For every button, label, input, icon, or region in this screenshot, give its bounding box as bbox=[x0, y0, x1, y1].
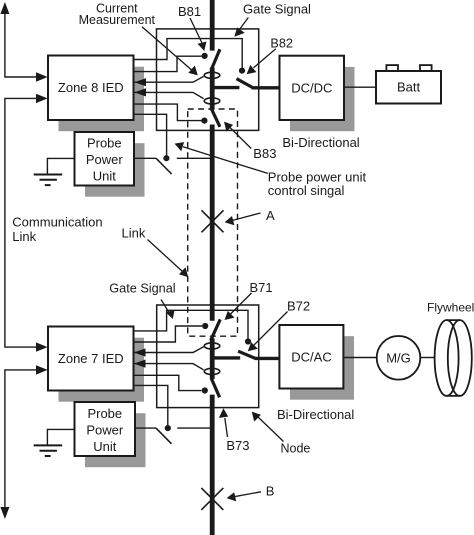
shadow of Zone 8 IED U8 bbox=[59, 67, 145, 132]
Zone 8 IED box bbox=[48, 56, 134, 121]
CT4 current transformer bbox=[204, 368, 220, 374]
svg-text:Batt: Batt bbox=[397, 80, 421, 95]
main DC bus segment 1 bbox=[210, 0, 215, 51]
svg-text:Flywheel: Flywheel bbox=[427, 301, 474, 315]
wire probe power unit to switch zone 7 bbox=[135, 427, 156, 429]
svg-text:Unit: Unit bbox=[93, 439, 117, 454]
main DC bus segment 5 bbox=[210, 395, 215, 535]
probe switch blade zone 7 bbox=[156, 428, 172, 444]
arrow down at bottom of communication link bbox=[0, 507, 9, 519]
CT3 current transformer bbox=[204, 343, 220, 349]
wire probe power unit to switch zone 8 bbox=[134, 157, 156, 159]
breaker B73 blade bbox=[211, 379, 219, 398]
pointer current measurement to CT1 bbox=[142, 27, 198, 76]
wire current measurement from CT3 to IED7 bbox=[134, 347, 204, 353]
pointer B83 label to breaker bbox=[224, 122, 251, 149]
breaker B82 blade bbox=[237, 79, 253, 88]
main DC bus segment 4 bbox=[210, 338, 215, 379]
svg-text:Bi-Directional: Bi-Directional bbox=[282, 135, 359, 150]
svg-text:B71: B71 bbox=[250, 280, 273, 295]
communication link trunk lower bbox=[5, 370, 37, 507]
breaker group box zone 8 bbox=[157, 29, 259, 130]
node B X mark bbox=[201, 488, 223, 510]
pointer B72 label to breaker bbox=[248, 312, 288, 352]
pointer A label to node A bbox=[225, 213, 261, 225]
wire current measurement from CT4 to IED7 bbox=[134, 364, 204, 370]
communication link trunk middle bbox=[5, 98, 37, 347]
arrow measurement into IED8 lower bbox=[135, 88, 147, 96]
probe switch control dot zone 8 bbox=[163, 155, 169, 161]
shadow of DC/AC converter bbox=[290, 336, 354, 400]
svg-text:B82: B82 bbox=[270, 37, 293, 51]
ground symbol zone 8 bbox=[47, 158, 74, 174]
wire gate signal to B81 bbox=[134, 56, 202, 71]
thick tap B72 to DC/AC bbox=[255, 357, 279, 360]
wire probe power control signal zone 7 bbox=[134, 385, 168, 428]
battery Batt box bbox=[376, 71, 441, 104]
pointer link label to dashed link bbox=[148, 240, 189, 278]
pointer gate signal bottom label bbox=[161, 300, 175, 320]
arrow measurement into IED7 lower bbox=[134, 360, 146, 368]
main DC bus segment 2 bbox=[210, 68, 215, 110]
pointer B71 label to breaker bbox=[225, 293, 252, 320]
breaker B82 gate dot bbox=[239, 68, 245, 74]
breaker B81 gate dot bbox=[202, 53, 208, 59]
svg-text:Power: Power bbox=[86, 152, 124, 167]
svg-text:B72: B72 bbox=[287, 299, 310, 314]
motor generator M/G circle bbox=[377, 336, 421, 380]
svg-text:Gate Signal: Gate Signal bbox=[243, 2, 311, 17]
arrow into Zone 8 IED lower bbox=[36, 94, 48, 103]
wire gate signal to B82 bbox=[134, 39, 242, 68]
breaker B83 blade bbox=[212, 109, 220, 127]
Probe Power Unit box zone 8 bbox=[75, 132, 135, 186]
wire M/G to flywheel bbox=[420, 357, 434, 359]
pointer gate signal top label bbox=[234, 18, 248, 37]
probe switch blade zone 8 bbox=[156, 158, 172, 174]
wire probe switch to bus zone 7 bbox=[177, 427, 212, 429]
svg-text:DC/AC: DC/AC bbox=[291, 350, 331, 365]
battery terminal 1 bbox=[386, 65, 398, 71]
breaker B72 gate dot bbox=[245, 338, 251, 344]
thick tap bus to B82 bbox=[212, 86, 239, 89]
pointer B label to node B bbox=[227, 492, 261, 502]
breaker B81 blade bbox=[212, 49, 220, 68]
DC/AC converter box bbox=[279, 325, 343, 389]
breaker B83 gate dot bbox=[201, 118, 207, 124]
breaker B71 blade bbox=[211, 319, 220, 340]
wire gate signal to B73 bbox=[134, 375, 202, 390]
node A X mark bbox=[202, 210, 224, 232]
pointer B82 label to breaker bbox=[247, 49, 276, 74]
wire current measurement from CT1 to IED8 bbox=[134, 76, 204, 82]
flywheel cylinder bbox=[435, 320, 472, 396]
svg-text:Communication: Communication bbox=[12, 215, 102, 230]
arrow measurement into IED8 upper bbox=[135, 78, 147, 86]
wire DC/AC to M/G bbox=[344, 357, 377, 359]
svg-text:Link: Link bbox=[12, 229, 36, 244]
wire gate signal to B72 bbox=[134, 310, 249, 338]
shadow of Probe Power Unit PS7 bbox=[85, 413, 146, 467]
pointer B73 label to breaker bbox=[219, 408, 228, 437]
breaker group box zone 7 bbox=[157, 305, 259, 408]
svg-text:B73: B73 bbox=[226, 438, 249, 453]
svg-text:Probe: Probe bbox=[87, 135, 122, 150]
arrow into Zone 7 IED upper bbox=[36, 342, 48, 351]
DC/DC converter box bbox=[280, 56, 345, 120]
pointer probe power control label bbox=[175, 142, 268, 173]
svg-text:Node: Node bbox=[281, 442, 311, 456]
pointer Node label to box corner bbox=[252, 412, 284, 442]
svg-text:M/G: M/G bbox=[386, 350, 411, 365]
thick tap bus to B72 bbox=[212, 356, 240, 359]
breaker B72 blade bbox=[238, 351, 256, 358]
arrow up at top of communication link bbox=[0, 2, 9, 14]
svg-text:DC/DC: DC/DC bbox=[291, 80, 332, 95]
svg-text:Link: Link bbox=[122, 226, 146, 241]
wire gate signal to B83 bbox=[134, 104, 202, 121]
svg-text:Zone 7 IED: Zone 7 IED bbox=[58, 351, 124, 366]
shadow of Probe Power Unit PS8 bbox=[85, 143, 145, 197]
arrow into Zone 8 IED upper bbox=[36, 72, 48, 81]
wire current measurement from CT2 to IED8 bbox=[134, 92, 204, 98]
svg-text:B83: B83 bbox=[253, 146, 276, 161]
CT1 current transformer bbox=[204, 72, 220, 78]
svg-text:Zone 8 IED: Zone 8 IED bbox=[58, 80, 124, 95]
arrow into Zone 7 IED lower bbox=[36, 365, 48, 374]
ground symbol zone 7 bbox=[47, 429, 74, 445]
pointer B81 label to breaker bbox=[190, 18, 206, 51]
wire probe power control signal zone 8 bbox=[134, 114, 167, 158]
breaker B73 gate dot bbox=[202, 387, 208, 393]
wire DC/DC to battery bbox=[344, 86, 376, 88]
svg-text:Measurement: Measurement bbox=[79, 13, 156, 27]
communication link trunk upper bbox=[5, 13, 37, 77]
svg-text:B81: B81 bbox=[178, 4, 201, 19]
CT2 current transformer bbox=[204, 98, 220, 104]
wire probe switch to bus zone 8 bbox=[177, 157, 212, 159]
Probe Power Unit box zone 7 bbox=[75, 402, 136, 456]
probe switch control dot zone 7 bbox=[165, 425, 171, 431]
svg-text:Bi-Directional: Bi-Directional bbox=[277, 407, 354, 422]
main DC bus segment 3 bbox=[210, 125, 215, 321]
arrow measurement into IED7 upper bbox=[134, 348, 146, 356]
battery terminal 2 bbox=[420, 65, 432, 71]
wire gate signal to B71 bbox=[134, 326, 203, 342]
breaker B71 gate dot bbox=[202, 323, 208, 329]
svg-text:B: B bbox=[266, 484, 275, 499]
svg-text:Power: Power bbox=[86, 423, 124, 438]
shadow of Zone 7 IED U7 bbox=[59, 338, 145, 402]
thick tap B82 to DC/DC bbox=[252, 86, 280, 89]
Zone 7 IED box bbox=[48, 327, 134, 391]
shadow of DC/DC converter bbox=[290, 67, 355, 131]
svg-text:A: A bbox=[266, 208, 275, 223]
svg-text:control singal: control singal bbox=[268, 183, 345, 198]
svg-text:Probe: Probe bbox=[87, 406, 122, 421]
svg-text:Unit: Unit bbox=[93, 168, 117, 183]
dashed link channel between B83 and B71 bbox=[188, 109, 238, 336]
svg-text:Gate Signal: Gate Signal bbox=[109, 281, 175, 295]
